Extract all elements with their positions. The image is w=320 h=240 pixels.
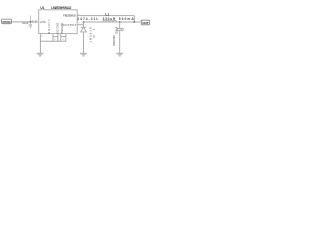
svg-text:940mA: 940mA [119,17,135,21]
svg-text:OUTPUT: OUTPUT [63,23,77,27]
svg-text:3300/16V: 3300/16V [112,35,116,46]
capacitor C1 (input bypass) [29,16,32,29]
svg-text:330uF: 330uF [115,26,119,34]
ground (below diode D1) [80,53,87,56]
svg-text:U1: U1 [40,6,44,10]
node output/C2 junction [119,21,121,23]
ground (main, below U1) [37,53,44,56]
svg-text:C2: C2 [120,27,124,31]
svg-text:PWR GND: PWR GND [61,23,64,34]
wire input rail (J1 to U1 +VIN pin) [11,21,38,23]
wire switch node to output connector [84,21,142,23]
connector J2 (regulated output, right edge) [141,20,149,25]
svg-text:LM2574HVM-12: LM2574HVM-12 [51,6,71,10]
svg-text:2474-31L: 2474-31L [77,17,98,21]
U1 pin numbers [36,14,81,41]
wire feedback (U1 FEEDBACK pin to output node) [77,15,134,17]
diode D1 (catch diode, cathode up) [81,22,87,53]
IC U1 body (LM2574 buck regulator) [39,10,77,34]
svg-text:10uF: 10uF [22,21,29,25]
wire ground bus (U1 bottom pins to ground) [40,34,65,53]
node input/C1 junction [30,21,32,23]
connector J1 (DC input, left edge) [2,19,12,24]
inductor L1 (winding arcs) [103,20,117,22]
svg-text:ON/OFF: ON/OFF [48,19,51,34]
ground (below capacitor C2) [116,53,123,56]
wire feedback vertical drop [133,16,135,22]
wire output pin stub [77,24,83,26]
node switch/diode junction [83,21,85,23]
svg-text:DCIN: DCIN [3,20,12,24]
svg-text:OUT: OUT [142,21,148,25]
U1 bottom pin names (rotated) [48,19,64,34]
svg-text:FEEDBACK: FEEDBACK [63,14,76,18]
svg-text:+VIN: +VIN [40,20,46,24]
svg-text:L1: L1 [105,13,109,17]
capacitor C2 (output filter) [117,22,123,53]
svg-text:SIG GND: SIG GND [57,23,60,34]
wire output pin riser [83,22,85,25]
node feedback/output junction [133,21,135,23]
